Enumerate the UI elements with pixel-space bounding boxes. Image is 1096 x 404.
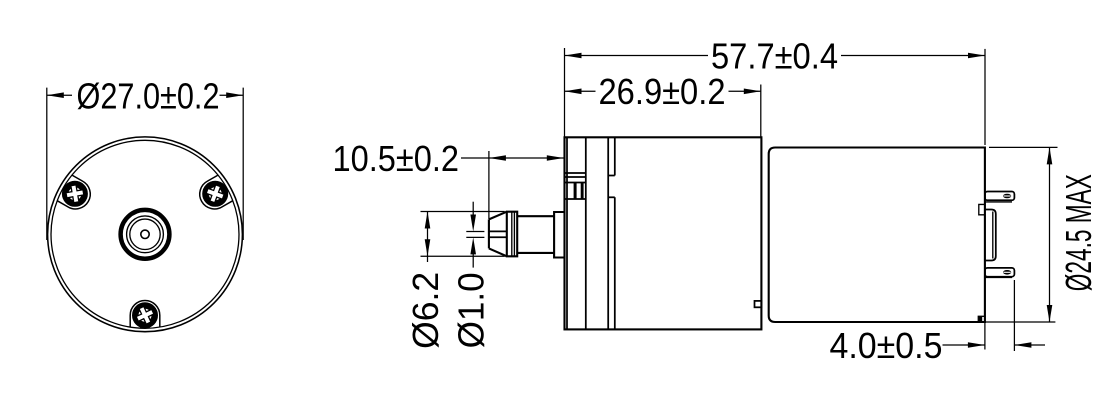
dim 4.0±0.5 arrow right pointing left <box>1014 342 1031 348</box>
dim 26.9±0.2 line right segment <box>729 90 761 92</box>
dim Ø24.5 MAX extension bottom (motor bottom edge extended) <box>985 321 1055 323</box>
svg-text:10.5±0.2: 10.5±0.2 <box>333 138 460 179</box>
collet tip face <box>488 219 490 248</box>
screw pocket top-left <box>57 175 90 209</box>
dim 26.9±0.2 arrow left <box>565 89 582 95</box>
screw pocket top-right <box>200 175 233 209</box>
shaft hole lower line <box>490 236 507 238</box>
dim Ø27.0±0.2 line left segment <box>47 94 72 96</box>
dim 4.0±0.5 arrow left pointing right <box>968 342 985 348</box>
gearbox body rectangle <box>565 137 762 329</box>
svg-text:57.7±0.4: 57.7±0.4 <box>711 36 838 77</box>
dim Ø1.0 tick lower <box>466 236 484 238</box>
gearbox seam notch lower step <box>608 196 615 198</box>
gearbox seam line left <box>607 137 609 329</box>
dim Ø1.0 lower line <box>472 242 474 268</box>
motor endcap bearing bump <box>985 210 996 261</box>
dim Ø27.0±0.2 extension line left <box>46 88 48 240</box>
dim 4.0±0.5 extension right <box>1013 280 1015 351</box>
dim Ø24.5 MAX arrow bottom <box>1047 305 1053 322</box>
motor endcap bottom notch dark mark <box>979 317 982 322</box>
svg-text:Ø1.0: Ø1.0 <box>450 272 491 348</box>
dim 26.9±0.2 line left segment <box>565 90 596 92</box>
gearbox outer circle <box>48 137 243 332</box>
dim Ø24.5 MAX arrow top <box>1047 147 1053 164</box>
dim 10.5±0.2 extension line at shaft tip <box>488 151 490 219</box>
screw S2 top-right ring <box>205 184 225 204</box>
terminal upper hole slot <box>1004 195 1011 197</box>
gearbox ratchet window slot 2 <box>581 183 584 200</box>
dim 57.7±0.4 line right segment <box>841 55 985 57</box>
svg-text:Ø6.2: Ø6.2 <box>405 272 446 349</box>
svg-text:Ø24.5 MAX: Ø24.5 MAX <box>1058 174 1096 291</box>
collet ring line 2 <box>513 212 515 257</box>
dim 4.0±0.5 right line <box>1014 344 1045 346</box>
dim Ø6.2 extension line top <box>421 211 505 213</box>
dim 26.9±0.2 extension right <box>760 85 762 138</box>
gearbox faceplate second line <box>566 137 568 329</box>
dim 26.9±0.2 arrow right <box>744 89 761 95</box>
motor endcap bottom notch <box>978 316 985 322</box>
svg-text:Ø27.0±0.2: Ø27.0±0.2 <box>77 75 220 116</box>
motor can body <box>769 148 985 323</box>
screw S2 phillips cross <box>204 183 226 205</box>
collet cone bottom slant <box>489 248 507 256</box>
dim Ø24.5 MAX extension top <box>989 146 1058 148</box>
dim Ø6.2 arrow top <box>425 212 431 229</box>
dim Ø6.2 arrow bottom <box>425 239 431 256</box>
gearbox bottom-right tab <box>755 301 762 307</box>
dim Ø27.0±0.2 arrow left <box>47 92 64 98</box>
dim Ø27.0±0.2 line right segment <box>220 94 244 96</box>
dim 57.7±0.4 line left segment <box>565 55 709 57</box>
hub circle inner <box>130 219 160 249</box>
gearbox ratchet window top edge <box>565 182 586 184</box>
shaft boss at faceplate <box>554 212 564 258</box>
screw S1 phillips cross <box>65 184 85 204</box>
dim Ø27.0±0.2 extension line right <box>242 88 244 240</box>
shaft hub thick ring <box>121 210 170 259</box>
gearbox ratchet window slot 1 <box>574 183 577 200</box>
terminal lower hole <box>1003 270 1011 275</box>
svg-text:26.9±0.2: 26.9±0.2 <box>599 71 726 112</box>
dim Ø6.2 extension line bottom <box>421 255 505 257</box>
terminal upper <box>985 192 1015 201</box>
dim Ø24.5 MAX line <box>1049 147 1051 322</box>
collet ring line 1 <box>511 212 513 257</box>
gearbox seam notch upper step <box>608 175 615 177</box>
gearbox seam line right lower segment <box>614 197 616 329</box>
terminal upper thickness line <box>986 201 1013 203</box>
screw S3 phillips cross <box>134 304 157 327</box>
dim 4.0±0.5 extension left <box>984 322 986 350</box>
screw S3 bottom ring <box>135 306 155 326</box>
collet cone top slant <box>489 212 507 220</box>
dim 57.7±0.4 extension left <box>564 48 566 137</box>
gearbox faceplate step line 2 <box>565 176 586 178</box>
dim Ø1.0 upper line with arrow <box>472 202 474 227</box>
gearbox faceplate step line 1 <box>565 172 586 174</box>
dim Ø27.0±0.2 arrow right <box>226 92 243 98</box>
terminal upper hole <box>1003 194 1011 199</box>
motor endcap hook <box>979 204 985 214</box>
shaft center hole <box>141 230 149 238</box>
dim 57.7±0.4 extension right <box>984 49 986 145</box>
dim Ø6.2 line <box>427 212 429 263</box>
motor endcap bump inner line <box>992 212 994 259</box>
dim Ø1.0 arrow lower <box>470 237 476 254</box>
dim 57.7±0.4 arrow right <box>968 53 985 59</box>
gearbox inner circle <box>51 140 239 328</box>
svg-text:4.0±0.5: 4.0±0.5 <box>830 325 943 366</box>
dim 10.5±0.2 arrow left <box>489 155 506 161</box>
gearbox ratchet window bottom edge <box>565 198 586 200</box>
hub circle mid <box>127 216 164 253</box>
terminal lower hole slot <box>1004 271 1011 273</box>
shaft cylinder bottom line <box>517 252 554 254</box>
shaft cylinder top line <box>517 215 554 217</box>
gearbox internal vertical line <box>585 137 587 329</box>
gearbox seam line right upper segment <box>614 137 616 175</box>
dim 10.5±0.2 line <box>461 157 564 159</box>
dim 57.7±0.4 arrow left <box>565 53 582 59</box>
dim Ø1.0 arrow upper <box>470 215 476 232</box>
shaft hole upper line <box>490 230 507 232</box>
terminal lower <box>985 268 1015 277</box>
screw pocket bottom <box>130 301 160 328</box>
screw S1 top-left ring <box>65 184 85 204</box>
terminal lower thickness line <box>986 276 1013 278</box>
dim Ø1.0 tick upper <box>466 231 484 233</box>
collet body outline <box>507 212 517 257</box>
dim 10.5±0.2 arrow right <box>547 155 564 161</box>
dim 4.0±0.5 leader line <box>943 344 985 346</box>
